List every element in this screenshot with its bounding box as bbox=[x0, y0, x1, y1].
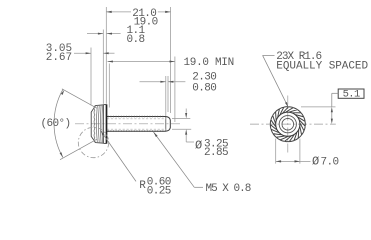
svg-text:7.0: 7.0 bbox=[321, 156, 339, 168]
svg-text:R: R bbox=[139, 180, 146, 192]
svg-text:0.25: 0.25 bbox=[147, 185, 171, 197]
svg-text:EQUALLY SPACED: EQUALLY SPACED bbox=[276, 60, 368, 72]
svg-text:2.67: 2.67 bbox=[46, 52, 72, 64]
svg-text:19.0 MIN: 19.0 MIN bbox=[184, 57, 234, 69]
svg-text:2.85: 2.85 bbox=[204, 147, 228, 159]
svg-text:5.1: 5.1 bbox=[343, 88, 360, 100]
svg-text:M5 X 0.8: M5 X 0.8 bbox=[206, 183, 251, 195]
svg-text:(60°): (60°) bbox=[41, 118, 71, 130]
svg-text:Ø: Ø bbox=[195, 139, 202, 153]
svg-text:Ø: Ø bbox=[312, 154, 319, 168]
svg-text:0.80: 0.80 bbox=[192, 82, 216, 94]
svg-text:0.8: 0.8 bbox=[127, 34, 145, 46]
